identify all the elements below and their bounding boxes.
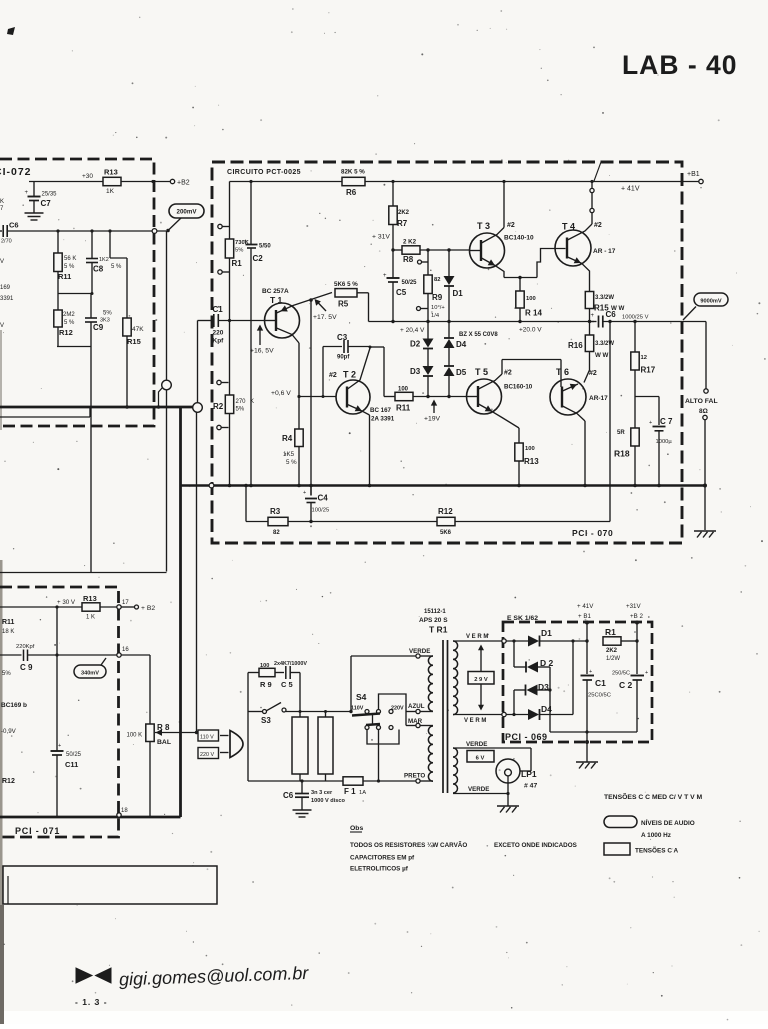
svg-text:R16: R16 bbox=[568, 341, 583, 350]
wire PRETO bbox=[404, 773, 433, 784]
wire R12/C9 bottom node bbox=[57, 346, 91, 348]
diode D1 bbox=[444, 250, 464, 323]
svg-text:+: + bbox=[25, 190, 29, 196]
junction R3/bus bbox=[244, 484, 248, 488]
svg-text:16: 16 bbox=[122, 647, 129, 653]
capacitor C6 3n3 disc bbox=[283, 779, 345, 810]
svg-text:+: + bbox=[58, 743, 61, 749]
svg-text:+B1: +B1 bbox=[687, 171, 700, 178]
wire feedback node / C4 branch bbox=[309, 484, 313, 496]
wire +41V supply rail bbox=[230, 180, 683, 183]
svg-text:1000 V disco: 1000 V disco bbox=[311, 798, 345, 804]
svg-text:+B 2: +B 2 bbox=[630, 613, 643, 620]
svg-text:BAL: BAL bbox=[157, 739, 171, 746]
svg-text:90pf: 90pf bbox=[337, 355, 350, 361]
wire T3 emitter node bbox=[504, 276, 537, 279]
svg-text:TENSÕES C A: TENSÕES C A bbox=[635, 846, 678, 855]
transistor T2 BC167 bbox=[329, 348, 395, 486]
wire lower return bbox=[0, 407, 90, 417]
diode D1 (rectifier) bbox=[506, 628, 587, 647]
svg-text:R11: R11 bbox=[58, 272, 71, 281]
svg-text:R13: R13 bbox=[83, 594, 97, 603]
svg-text:APS 20 S: APS 20 S bbox=[419, 617, 448, 624]
wire input node (PCI-072) bbox=[8, 230, 167, 232]
svg-text:R12: R12 bbox=[59, 328, 73, 337]
svg-text:10°/+: 10°/+ bbox=[431, 305, 445, 311]
svg-text:R9: R9 bbox=[432, 293, 443, 302]
svg-text:D2: D2 bbox=[410, 340, 421, 349]
svg-text:220Kpf: 220Kpf bbox=[16, 644, 35, 650]
wire C1 feed down bbox=[197, 321, 199, 403]
wire VERDE top bbox=[351, 648, 433, 658]
capacitor C5 50/25 bbox=[383, 250, 417, 323]
resistor R11 56K bbox=[54, 229, 77, 293]
svg-text:#2: #2 bbox=[504, 370, 512, 377]
svg-text:E SK 1/62: E SK 1/62 bbox=[507, 615, 538, 622]
svg-text:R4: R4 bbox=[282, 434, 293, 443]
board outline PCI-071 (dashed) bbox=[0, 587, 119, 837]
svg-text:VERDE: VERDE bbox=[468, 786, 489, 793]
connector pins T4 collector bbox=[590, 182, 594, 213]
svg-text:5 %: 5 % bbox=[286, 459, 297, 466]
wire secondary-2 top bbox=[453, 741, 531, 771]
board pins left column bbox=[217, 224, 230, 429]
pin circle on board edge bbox=[152, 229, 157, 234]
svg-text:S4: S4 bbox=[356, 692, 367, 702]
svg-text:+31V: +31V bbox=[626, 603, 641, 610]
svg-text:15112-1: 15112-1 bbox=[424, 609, 446, 615]
svg-text:C6: C6 bbox=[9, 221, 19, 230]
notes line 1 bbox=[350, 840, 577, 849]
svg-text:BC160-10: BC160-10 bbox=[504, 384, 533, 391]
wire bus (PCI-071, thick) bbox=[0, 816, 181, 819]
svg-text:R6: R6 bbox=[346, 188, 357, 197]
svg-text:T 3: T 3 bbox=[477, 221, 490, 231]
svg-text:R7: R7 bbox=[397, 219, 408, 228]
board pins (R9 column) bbox=[417, 260, 429, 311]
wire R11/C8 node bbox=[58, 292, 94, 295]
svg-text:Kpf: Kpf bbox=[213, 338, 225, 345]
board outline PCI-069 (dashed) bbox=[503, 622, 652, 742]
signature arrows bbox=[76, 968, 111, 983]
svg-text:#2: #2 bbox=[589, 370, 597, 377]
resistor R16 3.3/2W bbox=[568, 322, 614, 383]
svg-text:R1: R1 bbox=[605, 627, 616, 637]
pin 16 bbox=[117, 647, 130, 657]
resistor R6 82K bbox=[341, 169, 365, 198]
svg-text:82K 5 %: 82K 5 % bbox=[341, 169, 365, 176]
svg-text:100: 100 bbox=[526, 296, 536, 302]
wire VERM top bbox=[453, 634, 502, 641]
capacitor C6 input 2/70 bbox=[0, 221, 19, 245]
svg-text:C6: C6 bbox=[606, 310, 617, 319]
svg-text:CAPACITORES EM pf: CAPACITORES EM pf bbox=[350, 855, 415, 862]
resistor R13 100 (output) bbox=[515, 428, 539, 487]
svg-text:MAR: MAR bbox=[408, 718, 423, 725]
svg-text:+16, 5V: +16, 5V bbox=[250, 348, 274, 355]
svg-text:C7: C7 bbox=[41, 199, 52, 208]
svg-text:3391: 3391 bbox=[0, 296, 14, 302]
svg-text:C6: C6 bbox=[283, 791, 294, 800]
svg-text:340mV: 340mV bbox=[81, 671, 99, 677]
label boxes 110V / 220V bbox=[198, 730, 229, 759]
diode D2 (rectifier) bbox=[514, 641, 554, 673]
svg-text:PCI - 069: PCI - 069 bbox=[505, 732, 548, 742]
wire ground bus (main) bbox=[181, 484, 707, 488]
svg-text:AZUL: AZUL bbox=[408, 703, 425, 710]
cut texts (PCI-071) bbox=[1, 671, 27, 785]
svg-text:R17: R17 bbox=[641, 366, 656, 375]
diode D3 (rectifier) bbox=[514, 682, 552, 715]
svg-text:5/50: 5/50 bbox=[259, 244, 271, 250]
svg-text:110 V: 110 V bbox=[200, 735, 214, 741]
component blocks (line elements) bbox=[292, 712, 333, 782]
transistor T6 AR-17 bbox=[550, 367, 608, 487]
transformer TR1 labels bbox=[419, 609, 448, 635]
svg-text:5K6 5 %: 5K6 5 % bbox=[334, 281, 358, 288]
svg-text:BC 257A: BC 257A bbox=[262, 288, 289, 295]
svg-text:C5: C5 bbox=[396, 288, 407, 297]
svg-text:T 4: T 4 bbox=[562, 222, 575, 232]
svg-text:220 V: 220 V bbox=[200, 752, 214, 758]
svg-text:S3: S3 bbox=[261, 716, 271, 725]
stray scan diagonal bbox=[594, 162, 601, 181]
diode D3 bbox=[410, 349, 434, 397]
svg-text:5R: 5R bbox=[617, 430, 625, 436]
svg-text:3n 3 cer: 3n 3 cer bbox=[311, 790, 333, 796]
svg-text:+20.0 V: +20.0 V bbox=[519, 327, 542, 334]
scan mark top-left bbox=[7, 27, 15, 35]
label +16,5V with arrow bbox=[250, 325, 274, 355]
resistor R2 270K bbox=[213, 321, 254, 486]
svg-text:C 2: C 2 bbox=[619, 680, 633, 690]
ground (PCI-069) bbox=[576, 740, 598, 769]
resistor R7 2K2 bbox=[389, 182, 410, 251]
capacitor C7 1000u (output) bbox=[649, 397, 673, 488]
svg-text:V: V bbox=[0, 259, 4, 265]
transistor T1 BC257A bbox=[262, 288, 332, 343]
resistor R14 100 bbox=[516, 278, 543, 324]
label +17.5V with arrow bbox=[313, 299, 337, 321]
svg-text:BC140-10: BC140-10 bbox=[504, 235, 534, 242]
svg-text:5 %: 5 % bbox=[64, 264, 75, 270]
svg-text:R 8: R 8 bbox=[157, 723, 170, 732]
svg-text:K: K bbox=[0, 199, 4, 205]
wire +30 rail (PCI-072) bbox=[29, 180, 170, 183]
legend rect CA bbox=[604, 843, 678, 855]
notes line 2 bbox=[350, 855, 415, 862]
capacitor C6 1000/25V bbox=[590, 310, 649, 328]
svg-text:# 47: # 47 bbox=[524, 783, 537, 790]
resistor R18 5R bbox=[614, 397, 639, 488]
diode D2 bbox=[410, 322, 434, 349]
transformer primary winding 2 bbox=[428, 726, 433, 781]
svg-text:D1: D1 bbox=[453, 289, 464, 298]
svg-text:R5: R5 bbox=[338, 300, 349, 309]
svg-text:TODOS OS RESISTORES ¼W CARVÃO: TODOS OS RESISTORES ¼W CARVÃO bbox=[350, 840, 467, 849]
svg-text:C2: C2 bbox=[253, 254, 264, 263]
svg-text:C4: C4 bbox=[318, 494, 329, 503]
mains plug icon bbox=[230, 731, 243, 758]
svg-text:T 5: T 5 bbox=[475, 367, 488, 377]
wire T2 collector to R11 bbox=[369, 346, 396, 397]
svg-text:25C0/5C: 25C0/5C bbox=[588, 693, 611, 699]
svg-text:1K: 1K bbox=[106, 188, 115, 195]
svg-text:BC 167: BC 167 bbox=[370, 407, 392, 414]
board outline PCI-072 (dashed) bbox=[0, 159, 154, 426]
svg-text:25/35: 25/35 bbox=[42, 192, 58, 198]
pin 17 / terminal +B2 bbox=[117, 600, 156, 612]
svg-text:2K2: 2K2 bbox=[606, 648, 618, 654]
svg-text:R2: R2 bbox=[213, 402, 224, 411]
svg-text:T 6: T 6 bbox=[556, 367, 569, 377]
svg-text:2M2: 2M2 bbox=[63, 312, 75, 318]
svg-text:W W: W W bbox=[595, 352, 609, 359]
svg-text:R15: R15 bbox=[127, 337, 141, 346]
wire +30V rail (PCI-071) bbox=[0, 605, 117, 608]
wire 200mV node down bbox=[166, 229, 170, 381]
svg-text:T R1: T R1 bbox=[429, 625, 448, 635]
callout 200mV bbox=[168, 204, 204, 231]
svg-text:+19V: +19V bbox=[424, 416, 441, 423]
wire T3-T4 coupling bbox=[537, 249, 566, 278]
svg-text:+ 41V: + 41V bbox=[577, 603, 594, 610]
svg-text:Obs: Obs bbox=[350, 825, 363, 832]
labels R11 18K bbox=[2, 619, 15, 635]
capacitor C7 25/35 bbox=[25, 182, 58, 214]
svg-text:100 K: 100 K bbox=[127, 733, 143, 739]
transistor T4 AR-17 bbox=[555, 213, 616, 292]
svg-text:5K6: 5K6 bbox=[440, 530, 452, 536]
svg-text:C11: C11 bbox=[65, 760, 78, 769]
label +20,4V bbox=[400, 327, 425, 334]
svg-text:100/25: 100/25 bbox=[312, 508, 330, 514]
svg-text:D4: D4 bbox=[456, 340, 467, 349]
svg-text:-0,9V: -0,9V bbox=[1, 728, 17, 735]
svg-text:CIRCUITO PCT-0025: CIRCUITO PCT-0025 bbox=[227, 169, 301, 176]
wire to bottom-left (signal) bbox=[0, 390, 167, 573]
svg-text:1/2W: 1/2W bbox=[606, 656, 620, 662]
svg-text:R11: R11 bbox=[396, 404, 411, 413]
terminal +B1 bbox=[682, 171, 703, 184]
capacitor C8 1K2 bbox=[86, 229, 122, 293]
svg-text:#2: #2 bbox=[329, 372, 337, 379]
wire S3 to S4 bbox=[286, 710, 351, 713]
svg-text:R12: R12 bbox=[438, 507, 453, 516]
svg-text:1/4: 1/4 bbox=[431, 313, 440, 319]
svg-text:200mV: 200mV bbox=[177, 209, 198, 216]
callout 340mV bbox=[74, 658, 106, 678]
wire +0,6V base line bbox=[271, 390, 336, 398]
svg-text:+: + bbox=[383, 273, 387, 279]
svg-text:12: 12 bbox=[641, 355, 647, 361]
wire feedback line bbox=[288, 521, 437, 523]
svg-text:+ B2: + B2 bbox=[141, 605, 155, 612]
svg-text:C 5: C 5 bbox=[281, 680, 293, 689]
svg-text:R13: R13 bbox=[104, 168, 118, 177]
label PCI-072 bbox=[0, 166, 32, 178]
title LAB-40 bbox=[622, 50, 738, 80]
svg-text:+ 41V: + 41V bbox=[621, 186, 640, 193]
svg-text:1 K: 1 K bbox=[86, 615, 95, 621]
svg-text:- 1. 3 -: - 1. 3 - bbox=[75, 997, 108, 1007]
svg-text:220: 220 bbox=[213, 330, 224, 337]
svg-text:110V: 110V bbox=[351, 706, 364, 712]
pin circle bus on board edge bbox=[209, 483, 214, 488]
svg-text:2x4K7/1000V: 2x4K7/1000V bbox=[274, 661, 307, 667]
svg-text:K: K bbox=[250, 399, 254, 405]
capacitor C4 100/25 bbox=[303, 490, 329, 523]
svg-text:C8: C8 bbox=[93, 265, 104, 274]
potentiometer R8 100K BAL bbox=[121, 655, 198, 817]
scan edge strips bbox=[0, 330, 4, 1024]
wire C9 branch down bbox=[90, 347, 92, 573]
svg-text:R13: R13 bbox=[524, 457, 539, 466]
svg-text:+B2: +B2 bbox=[177, 180, 190, 187]
label PCI-070 bbox=[572, 528, 613, 538]
svg-text:18: 18 bbox=[121, 808, 128, 814]
notes Obs bbox=[350, 825, 363, 832]
svg-text:ALTO FAL: ALTO FAL bbox=[685, 398, 718, 405]
svg-text:2/70: 2/70 bbox=[1, 239, 12, 245]
capacitor C1 2500/50 bbox=[581, 669, 611, 742]
transformer secondary winding 1 bbox=[453, 641, 458, 715]
svg-text:V E R M: V E R M bbox=[466, 634, 488, 640]
legend heading bbox=[604, 792, 703, 801]
svg-text:R3: R3 bbox=[270, 507, 281, 516]
resistor R3 82 bbox=[246, 486, 288, 537]
label ESK 1/62 bbox=[507, 615, 538, 622]
svg-text:LP1: LP1 bbox=[521, 769, 537, 779]
svg-text:+ 20,4 V: + 20,4 V bbox=[400, 327, 425, 334]
terminal +B2 bbox=[170, 179, 189, 186]
pin 18 bbox=[117, 808, 129, 817]
svg-text:C9: C9 bbox=[93, 323, 104, 332]
svg-text:PRETO: PRETO bbox=[404, 773, 425, 780]
svg-text:#2: #2 bbox=[507, 222, 515, 229]
svg-text:5%: 5% bbox=[2, 671, 11, 677]
svg-text:+ B1: + B1 bbox=[578, 613, 591, 620]
svg-text:270: 270 bbox=[236, 399, 247, 405]
svg-text:T 1: T 1 bbox=[270, 295, 283, 305]
svg-text:1000µ: 1000µ bbox=[656, 439, 673, 445]
svg-text:TENSÕES C C MED C/ V T V M: TENSÕES C C MED C/ V T V M bbox=[604, 792, 703, 801]
svg-text:D3: D3 bbox=[410, 367, 421, 376]
svg-text:R1: R1 bbox=[232, 259, 243, 268]
svg-text:+: + bbox=[303, 490, 306, 496]
svg-text:C1: C1 bbox=[595, 678, 606, 688]
svg-text:1000/25 V: 1000/25 V bbox=[622, 315, 649, 321]
svg-text:56 K: 56 K bbox=[64, 256, 76, 262]
board outline PCI-070 (dashed) bbox=[212, 162, 682, 543]
svg-text:VERDE: VERDE bbox=[466, 741, 487, 748]
svg-text:F 1: F 1 bbox=[344, 787, 356, 796]
label +31V bbox=[372, 234, 390, 241]
wire AZUL bbox=[406, 703, 433, 714]
svg-text:1K2: 1K2 bbox=[99, 257, 109, 263]
resistor R1 730K bbox=[225, 182, 249, 321]
svg-text:82: 82 bbox=[273, 530, 280, 536]
svg-text:8Ω: 8Ω bbox=[699, 408, 708, 415]
switch S4 bbox=[349, 656, 406, 781]
wire D1/D4 cathode rail bbox=[571, 639, 574, 714]
capacitor C5 2x4K7/1000V (mains) bbox=[274, 661, 307, 712]
connector circle A bbox=[162, 380, 172, 390]
svg-text:+: + bbox=[645, 670, 648, 676]
wire R17/R18/C7 node bbox=[635, 396, 659, 398]
svg-text:100: 100 bbox=[525, 446, 535, 452]
page number bbox=[75, 997, 108, 1007]
svg-text:R18: R18 bbox=[614, 449, 630, 459]
resistor R9 82 bbox=[424, 250, 446, 323]
svg-text:6 V: 6 V bbox=[476, 756, 485, 762]
wire +B2 rail vertical bbox=[635, 623, 638, 675]
switch S3 bbox=[248, 703, 286, 726]
svg-text:1A: 1A bbox=[359, 790, 366, 796]
svg-text:+: + bbox=[244, 239, 248, 245]
transformer secondary winding 2 bbox=[453, 748, 458, 793]
svg-text:100: 100 bbox=[260, 663, 269, 669]
svg-text:3.3/2W: 3.3/2W bbox=[595, 341, 614, 347]
svg-text:BZ X 55 C0V8: BZ X 55 C0V8 bbox=[459, 332, 498, 338]
wire VERM bottom bbox=[453, 715, 502, 725]
wire +B1 rail vertical bbox=[585, 623, 588, 675]
wire output node bbox=[369, 320, 707, 323]
svg-text:18 K: 18 K bbox=[2, 629, 14, 635]
wire S3 branch vertical bbox=[247, 673, 249, 782]
capacitor C2 5/50 bbox=[244, 182, 272, 486]
label CIRCUITO PCT-0025 bbox=[227, 169, 301, 176]
ground (C6 disc) bbox=[293, 810, 312, 817]
svg-text:PCI-072: PCI-072 bbox=[0, 166, 32, 178]
wire T5 collector to T6 base bbox=[502, 360, 561, 388]
wire bias string to T5 base bbox=[413, 395, 467, 398]
resistor R1 2K2 (PCI-069) bbox=[603, 627, 637, 662]
label PCI-071 bbox=[15, 826, 60, 836]
transistor T5 BC160-10 bbox=[467, 360, 533, 429]
svg-text:AR - 17: AR - 17 bbox=[593, 248, 616, 255]
svg-text:250/5C: 250/5C bbox=[612, 671, 630, 677]
svg-text:5%: 5% bbox=[103, 311, 112, 317]
transistor T3 BC140-10 bbox=[469, 182, 534, 278]
svg-text:PCI - 070: PCI - 070 bbox=[572, 528, 613, 538]
ground (lamp) bbox=[497, 794, 519, 813]
svg-text:R 14: R 14 bbox=[525, 309, 542, 318]
svg-text:D1: D1 bbox=[541, 628, 552, 638]
svg-text:C3: C3 bbox=[337, 333, 348, 342]
resistor R17 12 bbox=[631, 322, 656, 397]
terminals +B1 +B2 (PCI-069) bbox=[577, 603, 643, 625]
label +41V bbox=[621, 186, 640, 193]
wire MAR bbox=[406, 718, 433, 728]
label BZ X 55 bbox=[459, 332, 498, 338]
resistor R11 100 (driver) bbox=[395, 387, 413, 413]
diode D4 bbox=[444, 322, 467, 350]
svg-text:3.3/2W: 3.3/2W bbox=[595, 295, 614, 301]
feeder thick vertical bbox=[179, 407, 182, 817]
ground (speaker) bbox=[694, 531, 716, 538]
svg-text:100: 100 bbox=[398, 387, 409, 393]
svg-text:5 %: 5 % bbox=[64, 320, 75, 326]
svg-text:+30: +30 bbox=[82, 173, 93, 180]
svg-text:C 9: C 9 bbox=[20, 663, 33, 672]
svg-text:50/25: 50/25 bbox=[66, 752, 82, 758]
svg-text:5 %: 5 % bbox=[111, 264, 122, 270]
label 6V box bbox=[467, 751, 494, 763]
svg-text:PCI - 071: PCI - 071 bbox=[15, 826, 60, 836]
legend oval audio bbox=[604, 816, 695, 839]
svg-text:+: + bbox=[589, 669, 592, 675]
